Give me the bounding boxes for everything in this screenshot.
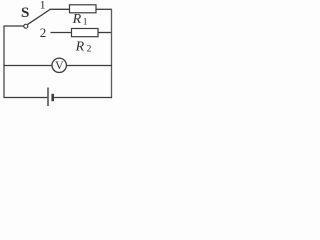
- wire: bottom row left: [4, 97, 48, 99]
- svg-text:S: S: [21, 5, 29, 21]
- svg-text:V: V: [55, 58, 64, 72]
- svg-text:R: R: [72, 12, 82, 27]
- switch S lever: [27, 10, 50, 25]
- wire: right vertical: [111, 9, 113, 98]
- wire: top-left horizontal to switch: [4, 25, 24, 27]
- battery long plate: [47, 88, 49, 107]
- svg-text:1: 1: [83, 18, 88, 28]
- wire: R2 to right vertical: [98, 32, 112, 34]
- wire: contact 1 to R1: [50, 8, 70, 10]
- voltmeter V: [52, 58, 66, 72]
- svg-text:R: R: [75, 39, 85, 54]
- svg-text:2: 2: [87, 45, 92, 55]
- wire: bottom row right: [54, 97, 112, 99]
- wire: contact 2 to R2: [51, 32, 72, 34]
- wire: middle row right: [66, 65, 112, 67]
- wire: R1 to right vertical: [96, 8, 112, 10]
- wire: left vertical: [3, 26, 5, 98]
- svg-text:2: 2: [40, 25, 47, 40]
- svg-text:1: 1: [40, 0, 46, 11]
- battery short plate: [51, 94, 54, 101]
- resistor R2 box: [72, 29, 99, 37]
- resistor R1 box: [70, 5, 97, 13]
- switch S pivot: [24, 24, 28, 28]
- wire: middle row left (to voltmeter): [4, 65, 53, 67]
